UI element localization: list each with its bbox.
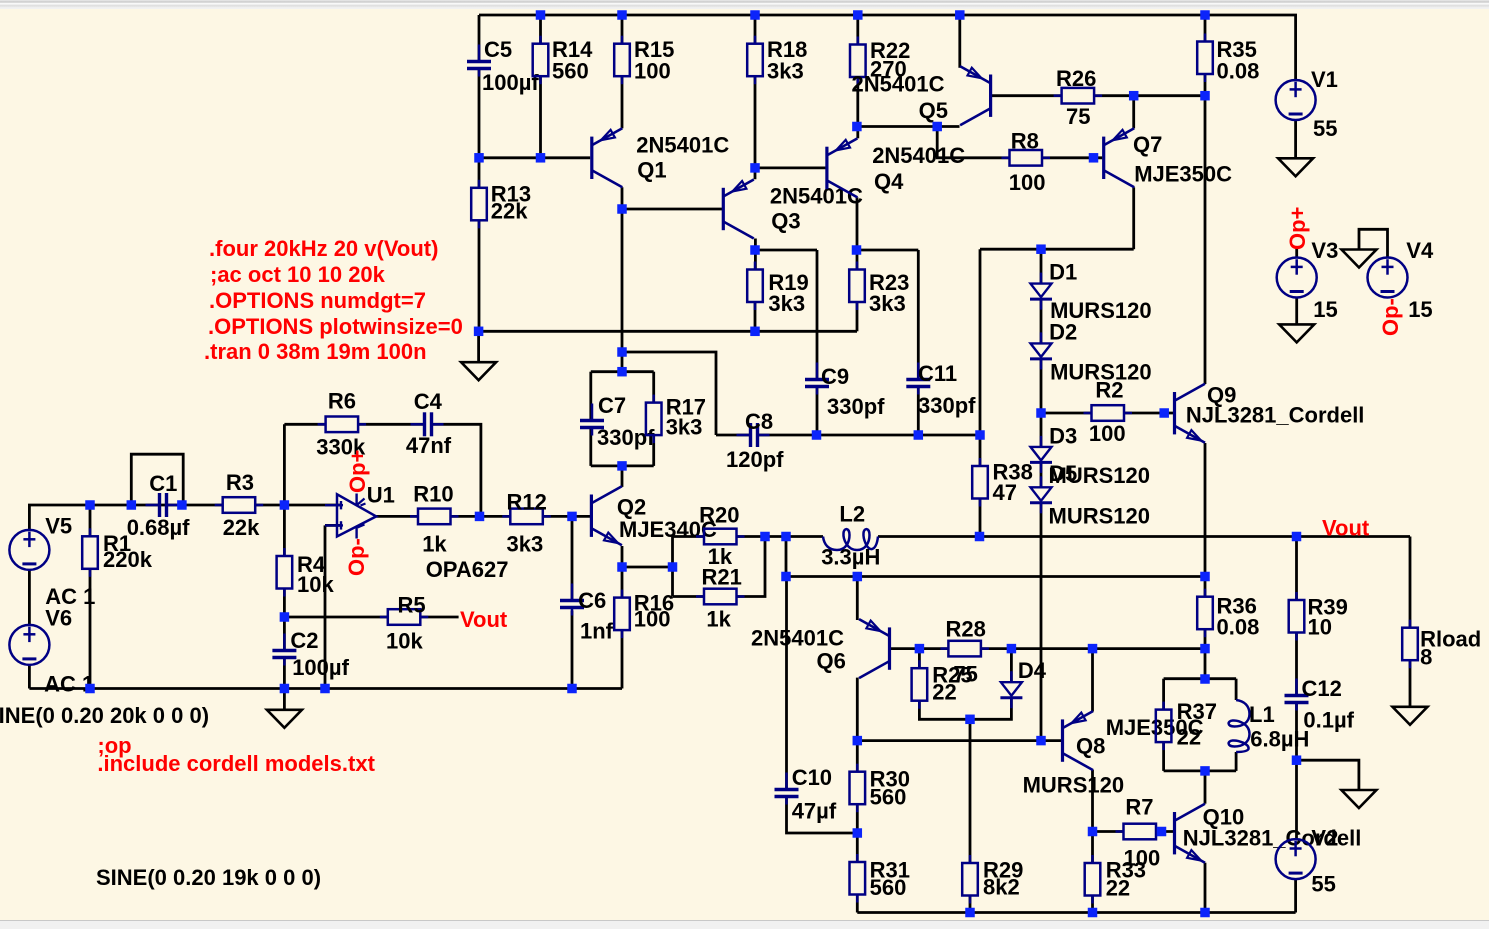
svg-text:.OPTIONS plotwinsize=0: .OPTIONS plotwinsize=0	[208, 314, 463, 339]
wire C10 bottom link	[787, 798, 858, 833]
resistor R6	[316, 389, 366, 460]
wire R25 top lead	[918, 649, 921, 669]
wire R2 right lead	[1124, 412, 1173, 415]
svg-text:22k: 22k	[223, 515, 260, 540]
wire Q1 base row	[479, 156, 590, 159]
inductor L1	[1229, 700, 1310, 752]
svg-text:47nf: 47nf	[406, 433, 452, 458]
svg-text:100µf: 100µf	[292, 655, 349, 680]
wire output rail	[878, 535, 1410, 538]
wire Q8 collector column	[1091, 770, 1094, 863]
svg-text:3k3: 3k3	[767, 59, 804, 84]
svg-text:C4: C4	[414, 389, 443, 414]
resistor R37	[1156, 699, 1217, 750]
junction R1 top	[85, 500, 95, 510]
svg-text:100: 100	[1009, 170, 1046, 195]
resistor R31	[850, 854, 910, 903]
resistor R1	[82, 528, 153, 577]
capacitor C1	[127, 471, 190, 540]
wire node to V2 top	[1295, 760, 1298, 839]
svg-text:560: 560	[870, 785, 907, 810]
resistor R35	[1197, 34, 1259, 84]
wire V4 top link	[1359, 229, 1388, 257]
diode D1	[1030, 260, 1152, 324]
junction C1 right	[177, 500, 187, 510]
svg-text:V5: V5	[45, 514, 72, 539]
svg-text:47: 47	[993, 480, 1017, 505]
wire R7 right lead	[1156, 830, 1173, 833]
svg-text:Vout: Vout	[460, 607, 508, 632]
inductor L2	[821, 502, 880, 570]
junction C8 tap	[617, 347, 627, 357]
junction Q1 collector	[617, 204, 627, 214]
svg-text:C8: C8	[745, 409, 773, 434]
wire R28 right row	[981, 647, 1205, 650]
wire R31 bottom stub	[856, 895, 859, 913]
wire V+ top rail	[479, 15, 1296, 80]
resistor R21	[696, 565, 745, 632]
junction R20R21 left	[668, 562, 678, 572]
svg-text:.tran 0 38m 19m 100n: .tran 0 38m 19m 100n	[204, 339, 427, 364]
junction Q4 collector	[852, 245, 862, 255]
svg-text:3k3: 3k3	[869, 291, 906, 316]
wire C4 right link	[433, 424, 481, 516]
wire R37 top lead	[1162, 679, 1165, 710]
wire R13 top stub	[478, 158, 481, 188]
svg-text:0.08: 0.08	[1217, 59, 1260, 84]
wire C2 top lead	[283, 617, 286, 649]
wire R3 to opamp	[256, 504, 341, 507]
svg-text:R7: R7	[1125, 795, 1153, 820]
svg-text:Op-: Op-	[1378, 298, 1403, 336]
wire Q8 base row	[857, 739, 1061, 742]
resistor R14	[533, 36, 593, 84]
wire R2 left lead	[1041, 412, 1092, 415]
junction R38 bottom	[975, 532, 985, 542]
junction gnd rail inv	[320, 684, 330, 694]
resistor R2	[1084, 378, 1133, 447]
svg-text:15: 15	[1408, 297, 1432, 322]
transistor Q6	[751, 619, 890, 678]
svg-text:560: 560	[870, 875, 907, 900]
wire R5 to Vout	[420, 616, 458, 619]
voltage source V1	[1276, 67, 1338, 141]
svg-text:2N5401C: 2N5401C	[770, 184, 863, 209]
svg-text:Q6: Q6	[817, 649, 846, 674]
resistor R22	[850, 37, 910, 86]
svg-text:R21: R21	[702, 565, 742, 590]
wire R22 top stub	[856, 15, 859, 45]
junction Q2 base C6	[567, 512, 577, 522]
resistor R12	[502, 490, 551, 557]
svg-text:SINE(0 0.20 19k 0 0 0): SINE(0 0.20 19k 0 0 0)	[96, 865, 321, 890]
wire C9 column	[816, 250, 819, 378]
wire C12 bottom lead	[1295, 704, 1298, 760]
resistor R10	[410, 482, 459, 557]
wire R35 top stub	[1204, 15, 1207, 42]
svg-text:C11: C11	[918, 361, 957, 386]
wire R6 left lead	[284, 423, 325, 426]
svg-text:R20: R20	[699, 503, 739, 528]
svg-text:3k3: 3k3	[507, 532, 544, 557]
svg-text:560: 560	[552, 59, 589, 84]
svg-text:10k: 10k	[386, 629, 423, 654]
resistor R15	[614, 36, 674, 84]
transistor Q4	[827, 138, 965, 197]
svg-text:C2: C2	[290, 628, 318, 653]
transistor Q9	[1175, 383, 1365, 443]
svg-text:100µf: 100µf	[482, 70, 539, 95]
wire Q6 base lead	[890, 647, 920, 650]
junction Q9 emitter R36	[1200, 572, 1210, 582]
svg-text:R6: R6	[328, 389, 356, 414]
wire R17 top lead	[652, 372, 655, 403]
svg-text:100: 100	[634, 59, 671, 84]
wire R21 left lead	[673, 595, 705, 598]
capacitor C12	[1285, 676, 1355, 733]
wire R6-C4 link	[359, 423, 424, 426]
wire R23 bottom stub	[856, 302, 859, 332]
resistor R13	[471, 180, 531, 229]
wire R38 bottom stub	[979, 499, 982, 537]
svg-text:0.1µf: 0.1µf	[1303, 708, 1354, 733]
capacitor C5	[467, 37, 539, 95]
junction R4 R5 C2	[280, 612, 290, 622]
wire R4 top stub	[283, 505, 286, 556]
svg-text:330pf: 330pf	[827, 394, 885, 419]
wire L1 bottom lead	[1235, 752, 1238, 771]
wire Q7 emitter column	[1132, 96, 1135, 129]
svg-text:Q1: Q1	[637, 158, 666, 183]
wire R1 top stub	[89, 505, 92, 536]
wire C7R17 box bottom	[591, 464, 654, 467]
resistor R18	[747, 36, 807, 84]
junction Q5 collector R8	[932, 122, 942, 132]
wire R35 bottom stub	[1204, 74, 1207, 96]
svg-text:1k: 1k	[422, 532, 447, 557]
wire R33 bottom stub	[1091, 896, 1094, 913]
wire R18 top stub	[754, 15, 757, 44]
svg-text:C7: C7	[598, 393, 626, 418]
wire C6 top lead	[571, 516, 574, 600]
svg-text:10k: 10k	[297, 572, 334, 597]
svg-text:Op+: Op+	[1285, 207, 1310, 250]
wire D4 top lead	[1010, 649, 1013, 683]
svg-text:10: 10	[1308, 615, 1332, 640]
svg-text:55: 55	[1311, 872, 1335, 897]
wire R15 bottom to Q1 emitter	[621, 76, 624, 128]
diode D2	[1030, 320, 1152, 385]
wire long V- column	[1204, 96, 1207, 384]
resistor R7	[1116, 795, 1165, 871]
svg-text:Q8: Q8	[1076, 734, 1105, 759]
wire V3 bottom stub	[1295, 298, 1298, 324]
wire Q5 emitter column	[958, 15, 961, 68]
svg-text:22: 22	[932, 680, 956, 705]
wire D1 top lead	[1040, 249, 1043, 283]
svg-text:6.8µH: 6.8µH	[1250, 727, 1309, 752]
wire D1-D2 link	[1040, 299, 1043, 343]
junction D1 top	[1036, 244, 1046, 254]
diode D3	[1030, 424, 1150, 489]
svg-text:;ac oct 10 10 20k: ;ac oct 10 10 20k	[210, 262, 386, 287]
resistor R8	[1002, 129, 1051, 196]
junction L2 left tap	[781, 532, 791, 542]
wire V5 top link	[29, 505, 222, 530]
wire L1 top lead	[1235, 679, 1238, 700]
svg-text:C1: C1	[149, 471, 177, 496]
wire node to C8 branch	[622, 352, 716, 435]
voltage source V3	[1277, 238, 1339, 322]
svg-text:C9: C9	[821, 364, 849, 389]
svg-text:1k: 1k	[706, 607, 731, 632]
resistor R36	[1197, 589, 1259, 640]
svg-text:V3: V3	[1311, 238, 1338, 263]
transistor Q3	[723, 180, 863, 239]
wire C2 bottom lead	[283, 659, 286, 689]
svg-text:3k3: 3k3	[666, 415, 703, 440]
resistor R28	[940, 617, 989, 687]
wire R4 bottom stub	[283, 589, 286, 618]
junction Q9 base	[1159, 408, 1169, 418]
svg-text:47µf: 47µf	[792, 799, 837, 824]
svg-text:120pf: 120pf	[726, 447, 784, 472]
resistor R16	[614, 590, 674, 639]
svg-text:MJE350C: MJE350C	[1134, 162, 1232, 187]
svg-text:1nf: 1nf	[580, 619, 614, 644]
svg-text:R26: R26	[1056, 66, 1096, 91]
junction Q3 collector	[750, 245, 760, 255]
resistor R39	[1289, 592, 1348, 641]
capacitor C10	[775, 765, 837, 824]
wire R30 bottom stub	[856, 804, 859, 862]
transistor Q5	[852, 66, 991, 125]
wire mid ground stub	[477, 331, 480, 362]
transistor Q1	[592, 128, 730, 187]
junction Q4 emitter	[852, 122, 862, 132]
voltage source V5	[9, 514, 72, 570]
wire Q1-Q3 base row	[622, 208, 723, 211]
ground V4	[1342, 250, 1377, 268]
wire R22 bottom to Q4 emitter	[856, 77, 859, 138]
wire C11 column	[917, 250, 920, 378]
junction Q8 emitter row	[1088, 644, 1098, 654]
wire R14 bottom to node	[539, 76, 542, 158]
wire R20R21 left link	[671, 537, 674, 597]
resistor R26	[1054, 66, 1103, 129]
junction C1 left	[127, 500, 137, 510]
wire D5 to Q8 base column	[1040, 503, 1043, 741]
svg-text:C12: C12	[1302, 676, 1342, 701]
svg-text:L2: L2	[839, 502, 865, 527]
wire V2 bottom to rail	[1294, 879, 1297, 912]
junction C12 bottom	[1292, 755, 1302, 765]
svg-text:55: 55	[1313, 116, 1337, 141]
voltage source V6	[9, 606, 72, 665]
wire R5 row	[284, 616, 387, 619]
svg-text:.include cordell models.txt: .include cordell models.txt	[97, 751, 375, 776]
wire R29 top column	[969, 719, 972, 863]
wire V3 top stub	[1295, 248, 1298, 258]
wire R13 bottom to mid rail	[478, 220, 481, 331]
wire R19 bottom stub	[754, 302, 757, 332]
wire V6 bottom stub	[28, 665, 31, 689]
resistor R20	[696, 503, 745, 570]
junction C10 bottom R30	[853, 828, 863, 838]
resistor R23	[849, 262, 909, 317]
svg-text:15: 15	[1313, 297, 1337, 322]
junction gnd rail C2	[280, 684, 290, 694]
junction R20R21 right	[760, 532, 770, 542]
wire Q7 collector column	[1132, 187, 1135, 249]
svg-text:Q2: Q2	[617, 495, 646, 520]
wire R12 to Q2 base	[543, 515, 590, 518]
wire inv input down	[324, 525, 327, 688]
junction C10 top	[781, 572, 791, 582]
svg-text:Op+: Op+	[345, 450, 370, 493]
svg-text:V1: V1	[1311, 67, 1338, 92]
transistor Q7	[1104, 128, 1232, 187]
transistor Q2	[591, 486, 717, 545]
resistor Rload	[1402, 620, 1481, 670]
junction box2 top	[1200, 674, 1210, 684]
junction mid rail R13	[474, 327, 484, 337]
svg-text:3k3: 3k3	[768, 291, 805, 316]
transistor Q10	[1175, 804, 1362, 863]
junction gnd rail C6	[567, 684, 577, 694]
wire R12 left lead	[480, 515, 511, 518]
wire Q2 emitter row	[622, 566, 673, 569]
svg-text:Op-: Op-	[344, 538, 369, 576]
wire R18 bottom to Q3 emitter	[754, 76, 757, 179]
wire C9 bottom lead	[816, 388, 819, 435]
wire Q10 emitter to rail	[1204, 863, 1207, 913]
wire ground rail	[29, 687, 622, 690]
svg-text:Q5: Q5	[919, 98, 948, 123]
svg-text:2N5401C: 2N5401C	[872, 143, 965, 168]
svg-text:3.3µH: 3.3µH	[821, 545, 880, 570]
junction R3 opamp	[280, 500, 290, 510]
wire R36 bottom stub	[1204, 629, 1207, 679]
capacitor C4	[406, 389, 452, 458]
wire V5-V6 link	[28, 570, 31, 625]
svg-text:.OPTIONS numdgt=7: .OPTIONS numdgt=7	[209, 288, 426, 313]
junction Q7 emitter	[1129, 91, 1139, 101]
wire C8 left lead	[716, 434, 749, 437]
resistor R17	[646, 395, 706, 444]
wire C6 bottom lead	[571, 611, 574, 689]
voltage source V4	[1368, 238, 1434, 322]
svg-text:2N5401C: 2N5401C	[636, 133, 729, 158]
wire Q2 emitter column	[621, 546, 624, 598]
svg-text:R8: R8	[1011, 129, 1039, 154]
resistor R25	[912, 660, 973, 709]
junction R38 top	[975, 430, 985, 440]
wire R26 right to R35	[1094, 94, 1206, 97]
op-amp U1	[325, 483, 508, 583]
wire C11 bottom lead	[917, 388, 920, 435]
ground V3	[1279, 324, 1314, 342]
ground V1	[1278, 158, 1313, 176]
svg-text:220k: 220k	[103, 547, 153, 572]
wire R39 top stub	[1295, 537, 1298, 601]
ground mid rail	[461, 362, 496, 380]
svg-text:2N5401C: 2N5401C	[852, 72, 945, 97]
wire box to Q10 collector	[1204, 771, 1207, 804]
wire C10 top lead	[785, 577, 788, 789]
wire opamp inv input	[325, 524, 341, 527]
wire R10 to node	[451, 515, 480, 518]
svg-text:0.68µf: 0.68µf	[127, 515, 190, 540]
wire D3 top lead	[1040, 413, 1043, 447]
wire Q1 collector column	[621, 187, 624, 371]
svg-text:8: 8	[1420, 645, 1432, 670]
wire V1 bottom stub	[1294, 120, 1297, 158]
wire C1 bypass	[131, 454, 183, 505]
wire V- bottom rail	[857, 911, 1295, 914]
wire R17 bottom lead	[652, 435, 655, 466]
junction R30 top row	[853, 736, 863, 746]
wire R38 upper column	[979, 249, 982, 466]
svg-text:D2: D2	[1049, 320, 1077, 345]
wire C7 top lead	[589, 372, 592, 419]
svg-text:100: 100	[1089, 421, 1126, 446]
svg-text:OPA627: OPA627	[426, 557, 509, 582]
junction C11 bottom	[914, 430, 924, 440]
junction top rail Q5	[955, 10, 965, 20]
svg-text:2N5401C: 2N5401C	[751, 626, 844, 651]
wire Q4 node to C11	[857, 249, 919, 252]
svg-text:0.08: 0.08	[1217, 615, 1260, 640]
wire R20 left lead	[673, 535, 705, 538]
svg-text:Vout: Vout	[1322, 516, 1370, 541]
wire feedback up	[283, 424, 286, 505]
wire bias top row	[980, 248, 1134, 251]
junction gnd rail R1	[85, 684, 95, 694]
wire C7R17 box top	[591, 370, 654, 373]
wire R7 left lead	[1093, 830, 1124, 833]
wire C2 ground stub	[283, 689, 286, 710]
junction D4 top	[1007, 644, 1017, 654]
junction R2 left	[1036, 408, 1046, 418]
capacitor C9	[805, 363, 885, 420]
svg-text:.four 20kHz 20 v(Vout): .four 20kHz 20 v(Vout)	[209, 236, 438, 261]
wire R14 top stub	[539, 15, 542, 44]
svg-text:Q7: Q7	[1133, 132, 1162, 157]
svg-text:U1: U1	[367, 483, 395, 508]
resistor R4	[277, 548, 335, 597]
junction Q3 emitter Q4 base	[750, 163, 760, 173]
junction R39 top	[1292, 532, 1302, 542]
wire Q4 collector stub	[856, 197, 859, 269]
voltage source V2	[1276, 826, 1339, 897]
svg-text:100: 100	[634, 607, 671, 632]
wire C8 right to R38 col	[758, 434, 980, 437]
wire R37L1 box bottom	[1164, 770, 1237, 773]
wire R39 to C12	[1295, 633, 1298, 695]
wire C5 bottom to node	[478, 70, 481, 158]
svg-text:22: 22	[1177, 725, 1201, 750]
junction Q2 emitter	[617, 562, 627, 572]
svg-text:22k: 22k	[491, 199, 528, 224]
wire R25 bottom row	[919, 698, 1011, 720]
junction Q6 base R25	[915, 644, 925, 654]
wire box to Q2 collector	[621, 466, 624, 487]
capacitor C11	[906, 361, 976, 418]
svg-text:R2: R2	[1095, 378, 1123, 403]
wire Q9 emitter column	[1204, 443, 1207, 577]
svg-text:SINE(0 0.20 20k 0 0 0): SINE(0 0.20 20k 0 0 0)	[0, 703, 209, 728]
